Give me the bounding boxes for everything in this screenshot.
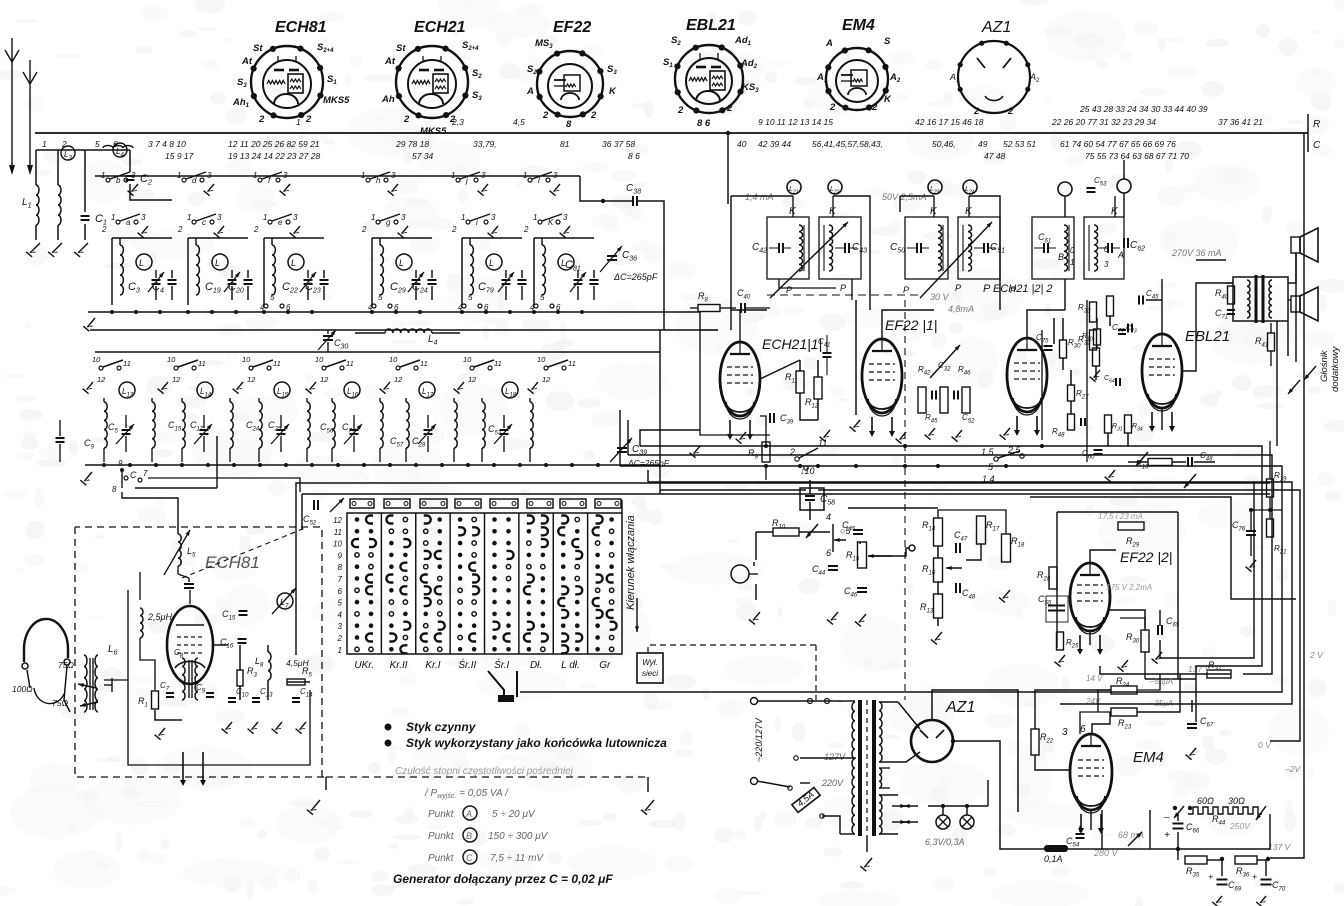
svg-text:P: P [955, 283, 961, 293]
svg-text:150 ÷ 300 μV: 150 ÷ 300 μV [488, 831, 549, 842]
capacitor above tube [184, 583, 194, 585]
ground antenna section [30, 243, 40, 253]
svg-text:4: 4 [368, 303, 373, 312]
svg-text:10: 10 [315, 355, 324, 364]
band switch matrix frame [302, 493, 1270, 495]
ground row2 left [84, 472, 92, 481]
svg-text:EM4: EM4 [842, 17, 875, 34]
svg-text:2: 2 [258, 114, 265, 125]
svg-text:i: i [476, 218, 478, 227]
svg-text:+: + [1208, 872, 1213, 882]
svg-text:3: 3 [553, 171, 558, 180]
svg-text:2: 2 [1007, 106, 1014, 117]
svg-text:3: 3 [491, 213, 496, 222]
svg-text:EBL21: EBL21 [1185, 328, 1230, 345]
oscillator triode ECH81 envelope [167, 606, 213, 684]
coil L5 variable [178, 534, 181, 566]
wire heater rail [987, 780, 989, 806]
svg-text:8 6: 8 6 [628, 151, 640, 161]
capacitor C47 [955, 543, 957, 553]
svg-text:Wył.: Wył. [642, 658, 658, 667]
svg-text:40: 40 [737, 139, 747, 149]
band switch contacts j/i [456, 178, 460, 182]
svg-text:42 39 44: 42 39 44 [758, 139, 791, 149]
svg-text:Punkt: Punkt [428, 831, 455, 842]
svg-text:l: l [538, 176, 540, 185]
svg-text:10: 10 [242, 355, 251, 364]
capacitor C76 [1246, 530, 1256, 532]
variable capacitor C36 [607, 255, 617, 257]
svg-text:3: 3 [283, 171, 288, 180]
svg-text:d: d [192, 176, 197, 185]
tone stack R14 R17 R18 [934, 518, 943, 546]
svg-text:St: St [396, 43, 406, 54]
node R terminal [1307, 114, 1309, 152]
svg-text:At: At [384, 56, 396, 67]
svg-text:↓10: ↓10 [800, 466, 815, 476]
svg-text:11: 11 [420, 359, 428, 368]
capacitor C30 [323, 335, 333, 337]
grounds inside oscillator [159, 728, 165, 736]
resistor R28 [1049, 567, 1057, 589]
svg-text:1,4 mA: 1,4 mA [745, 192, 774, 202]
svg-text:Punkt: Punkt [428, 809, 455, 820]
transformer secondary HT winding [879, 702, 882, 762]
svg-text:1: 1 [187, 213, 191, 222]
band switch contacts b/a [106, 178, 110, 182]
resistor R25 [1057, 632, 1064, 650]
capacitor C38 [632, 196, 634, 206]
capacitor C9 C10 C11 C14 row [206, 692, 214, 694]
svg-text:g: g [386, 218, 391, 227]
svg-text:1: 1 [101, 171, 105, 180]
svg-text:2: 2 [361, 225, 367, 234]
heater arrows below oscillator tube [182, 752, 184, 780]
svg-text:0 V: 0 V [1258, 740, 1272, 750]
capacitor C48 mid [955, 583, 957, 593]
svg-text:C: C [466, 853, 473, 863]
capacitor C8 left [56, 437, 65, 439]
svg-text:h: h [376, 176, 381, 185]
svg-text:3: 3 [481, 171, 486, 180]
svg-text:0: 0 [1070, 246, 1075, 255]
svg-text:ΔC=265pF: ΔC=265pF [613, 272, 658, 282]
RF tuned circuit block 4 [371, 238, 373, 305]
svg-text:P: P [840, 283, 846, 293]
oscillator tuned circuit 6 [482, 402, 485, 448]
capacitor C44 [828, 565, 838, 567]
capacitor C7 [166, 692, 174, 694]
svg-text:10: 10 [92, 355, 101, 364]
svg-text:e: e [278, 218, 283, 227]
loudspeaker 1 [1291, 237, 1300, 253]
svg-text:220V: 220V [821, 778, 844, 788]
svg-text:5: 5 [378, 293, 383, 302]
IF transformer II primary box [905, 217, 948, 279]
svg-text:12: 12 [97, 375, 106, 384]
wire long rails middle [764, 464, 768, 468]
oscillator tuned circuit 3 [259, 402, 262, 448]
arrow down-left antenna feed [9, 165, 15, 175]
svg-text:3: 3 [293, 213, 298, 222]
svg-text:5: 5 [95, 139, 100, 149]
resistor R16 mid [934, 558, 943, 582]
resistor R10 [773, 528, 799, 536]
svg-text:10: 10 [537, 355, 546, 364]
svg-text:2: 2 [451, 225, 457, 234]
selector pointer symbol [488, 671, 517, 697]
tube socket ECH81 [232, 19, 350, 125]
svg-text:1: 1 [451, 171, 455, 180]
svg-text:7: 7 [338, 575, 343, 584]
svg-text:1: 1 [361, 171, 365, 180]
variable capacitor C39 right [617, 447, 627, 449]
svg-text:22 26 20 77 31 32 23 29: 22 26 20 77 31 32 23 29 34 [1051, 117, 1156, 127]
svg-text:10: 10 [333, 540, 342, 549]
resistor R8 [698, 305, 720, 312]
pilot lamps [936, 815, 950, 829]
resistor R3 [237, 670, 243, 686]
svg-text:4,8mA: 4,8mA [948, 304, 974, 314]
svg-text:11: 11 [273, 359, 281, 368]
svg-text:K: K [548, 218, 554, 227]
svg-text:6,3V/0,3A: 6,3V/0,3A [925, 837, 965, 847]
heater arrows [892, 805, 906, 807]
wire 270V rail [1123, 160, 1125, 179]
svg-text:5 ÷ 20 μV: 5 ÷ 20 μV [492, 809, 536, 820]
resistor R12 [814, 377, 822, 399]
wire row2 to matrix [148, 478, 300, 492]
svg-text:9: 9 [118, 459, 123, 468]
wire RF row2 top rail [95, 351, 660, 353]
svg-text:1: 1 [371, 213, 375, 222]
svg-text:3: 3 [1104, 260, 1109, 269]
svg-text:EF22 |1|: EF22 |1| [885, 317, 937, 333]
svg-text:2: 2 [101, 225, 107, 234]
wire AZ1 cathode B+ [932, 690, 1018, 812]
svg-text:2: 2 [590, 110, 597, 121]
svg-text:5: 5 [540, 293, 545, 302]
svg-text:3: 3 [338, 622, 343, 631]
svg-text:50,46,: 50,46, [932, 139, 956, 149]
wire dashed mains switch link [648, 645, 816, 653]
capacitor C39a [769, 413, 771, 423]
wire AZ1 plates [898, 702, 920, 729]
potentiometer R15 [858, 542, 867, 568]
svg-text:0: 0 [1104, 245, 1109, 254]
resistor R1 [152, 691, 159, 709]
capacitor C2 [126, 175, 135, 177]
coil 2.5uH [140, 608, 143, 638]
tube ECH21(2) [1007, 338, 1047, 412]
svg-text:K: K [609, 86, 617, 97]
svg-text:L: L [291, 258, 296, 268]
svg-text:75 55 73 64 63 68 67: 75 55 73 64 63 68 67 71 70 [1085, 151, 1189, 161]
screen network under EF22(1) [918, 387, 926, 413]
svg-text:11: 11 [198, 359, 206, 368]
svg-text:14 V: 14 V [1086, 674, 1103, 683]
svg-text:8: 8 [338, 563, 343, 572]
svg-text:Ah: Ah [381, 94, 395, 105]
svg-text:L: L [399, 258, 404, 268]
svg-text:33,79,: 33,79, [473, 139, 497, 149]
svg-text:Punkt: Punkt [428, 853, 455, 864]
wire mid rail y330 [90, 329, 660, 331]
svg-text:3: 3 [401, 213, 406, 222]
coil L1 [36, 185, 39, 225]
IF transformer III secondary box [1084, 217, 1124, 279]
ground oscillator [311, 800, 320, 811]
band switch contacts f/e [258, 178, 262, 182]
svg-text:1: 1 [461, 213, 465, 222]
capacitor C55 dashed box [1048, 605, 1058, 607]
svg-text:1: 1 [523, 171, 527, 180]
svg-text:11: 11 [568, 359, 576, 368]
svg-text:61 74 60 54 77 67 65 66: 61 74 60 54 77 67 65 66 69 76 [1060, 139, 1176, 149]
svg-text:MKS5: MKS5 [420, 126, 447, 137]
phono input jack [731, 565, 749, 583]
svg-text:36 37 58: 36 37 58 [602, 139, 635, 149]
resistor R41 [1268, 333, 1275, 351]
resistor R24 [1111, 686, 1137, 694]
svg-text:2,5μH: 2,5μH [147, 612, 172, 622]
RF tuned circuit block 2 [187, 238, 189, 305]
wire RF row2 bottom rail [85, 464, 660, 466]
RC network R16 C48 [1148, 459, 1172, 466]
wire RF top rail [95, 175, 580, 177]
svg-text:P ECH21 |2| 2: P ECH21 |2| 2 [983, 283, 1053, 295]
wire RF to tubes [620, 312, 700, 330]
svg-text:2: 2 [726, 103, 733, 114]
svg-text:Kr.II: Kr.II [390, 660, 408, 671]
svg-text:a: a [126, 218, 131, 227]
wire tone network [938, 510, 1006, 534]
oscillator padder coil L4 [385, 329, 432, 333]
IF transformer III primary box [1032, 217, 1074, 279]
RF tuned circuit block 5 [461, 238, 463, 305]
oscillator tuned circuit 1 [104, 402, 107, 448]
capacitor C67 [1187, 723, 1197, 725]
wire bus to IFT1 [727, 133, 729, 204]
svg-text:3: 3 [207, 171, 212, 180]
tube socket EF22 [526, 19, 617, 130]
svg-text:2: 2 [177, 225, 183, 234]
wire EM4 connections [1035, 755, 1070, 770]
RF tuned circuit block 6 [533, 238, 535, 305]
ground EBL21 area [1004, 428, 1010, 436]
resistor R19 [1267, 479, 1274, 497]
svg-text:6: 6 [826, 548, 831, 558]
wire rail left joins [640, 430, 700, 446]
wire IFT2 frame [900, 195, 934, 197]
svg-text:B: B [1058, 252, 1064, 262]
svg-text:L: L [489, 258, 494, 268]
svg-text:A: A [465, 809, 472, 819]
resistor R9 [762, 442, 770, 462]
svg-text:6: 6 [556, 303, 561, 312]
svg-text:~220/127V: ~220/127V [754, 717, 764, 762]
legend bullet 2 [385, 740, 392, 747]
components around EBL21 [1138, 296, 1140, 305]
svg-text:6: 6 [1080, 724, 1086, 735]
top-cap circles L21 L22 [787, 180, 801, 194]
capacitor C40 [740, 303, 742, 313]
capacitor C65 [1157, 625, 1159, 635]
svg-text:12 11 20 25 26 82 59 21: 12 11 20 25 26 82 59 21 [228, 139, 320, 149]
fuse 4.5A [792, 787, 820, 812]
svg-text:3: 3 [391, 171, 396, 180]
svg-text:L: L [215, 258, 220, 268]
svg-text:49: 49 [978, 139, 988, 149]
svg-text:ECH21|1|: ECH21|1| [762, 336, 822, 352]
wire right side vertical rails [1276, 321, 1278, 446]
svg-text:2: 2 [829, 102, 836, 113]
coil L7 core circle [277, 593, 293, 609]
svg-text:52 53 51: 52 53 51 [1003, 139, 1036, 149]
svg-text:1: 1 [111, 213, 115, 222]
IF transformer I secondary box [819, 217, 861, 279]
svg-text:C: C [130, 470, 137, 480]
svg-text:4: 4 [260, 303, 265, 312]
svg-text:Generator dołączany przez C =: Generator dołączany przez C = 0,02 μF [393, 872, 613, 886]
svg-text:1: 1 [296, 117, 301, 127]
svg-text:Głośnik: Głośnik [1319, 349, 1330, 382]
svg-text:AZ1: AZ1 [945, 699, 975, 716]
tube socket AZ1 [949, 19, 1040, 117]
svg-text:5: 5 [270, 293, 275, 302]
resistor R40 [1228, 286, 1235, 304]
capacitor C41 [823, 352, 832, 354]
tube socket EM4 [816, 17, 901, 113]
svg-text:2: 2 [677, 105, 684, 116]
svg-text:–2V: –2V [1284, 764, 1301, 774]
svg-text:12: 12 [320, 375, 329, 384]
transformer primary winding [852, 702, 855, 834]
band switch contacts d/c [182, 178, 186, 182]
svg-text:30Ω: 30Ω [1228, 796, 1245, 806]
svg-text:2: 2 [305, 114, 312, 125]
tube EM4 indicator [1070, 734, 1112, 810]
capacitor C46 [857, 587, 867, 589]
svg-text:A: A [1117, 250, 1124, 260]
resistor R23 [1111, 708, 1137, 716]
svg-text:8: 8 [112, 485, 117, 494]
resistor R29 [1118, 522, 1144, 530]
svg-text:11: 11 [334, 528, 342, 537]
resistor R5 [287, 679, 305, 685]
resistor R13 [934, 594, 943, 618]
wire RF row1 bottom rail [88, 311, 620, 313]
output transformer [1233, 277, 1288, 321]
svg-text:15 9 17: 15 9 17 [165, 151, 194, 161]
svg-text:R: R [1313, 119, 1320, 130]
svg-text:8 6: 8 6 [697, 118, 711, 129]
wire EF22(2) [1090, 550, 1116, 563]
electrolytic C66 [1173, 823, 1184, 825]
tube EF22(2) [1070, 563, 1110, 631]
capacitor C58 mid [805, 495, 815, 497]
svg-text:Styk czynny: Styk czynny [406, 720, 477, 734]
svg-text:6: 6 [338, 587, 343, 596]
svg-text:b: b [116, 176, 121, 185]
svg-text:At: At [241, 56, 253, 67]
svg-text:c: c [202, 218, 206, 227]
svg-text:EBL21: EBL21 [686, 17, 736, 34]
RF tuned circuit block 1 [111, 238, 113, 305]
svg-text:5: 5 [468, 293, 473, 302]
resistor R21 [1267, 519, 1274, 537]
svg-text:11: 11 [346, 359, 354, 368]
ground ECH21(1) [740, 432, 746, 440]
svg-text:1: 1 [253, 171, 257, 180]
capacitor C1 [81, 215, 90, 217]
svg-text:2: 2 [871, 102, 878, 113]
svg-text:175 V 2,2mA: 175 V 2,2mA [1106, 583, 1152, 592]
variable arrow IFT1 [770, 222, 848, 298]
svg-text:2: 2 [542, 110, 549, 121]
svg-text:MKS5: MKS5 [323, 95, 350, 106]
matrix main grid [347, 513, 622, 654]
svg-text:3: 3 [1062, 727, 1068, 738]
antenna plug symbol [24, 619, 68, 658]
svg-text:0,1A: 0,1A [1044, 854, 1063, 864]
svg-text:Kierunek włączania: Kierunek włączania [625, 515, 637, 610]
band switch contacts h/g [366, 178, 370, 182]
svg-text:3: 3 [563, 213, 568, 222]
variable arrow IFT2 [920, 222, 992, 298]
svg-text:1: 1 [263, 213, 267, 222]
capacitor C43 [853, 529, 863, 531]
tube ECH21(1) [720, 342, 760, 416]
svg-text:S: S [884, 36, 891, 47]
svg-text:L dł.: L dł. [561, 660, 580, 671]
oscillator tuned circuit 4 [332, 402, 335, 448]
svg-text:EM4: EM4 [1133, 749, 1164, 766]
svg-text:K: K [884, 94, 892, 105]
svg-text:42 16 17 15 46 18: 42 16 17 15 46 18 [915, 117, 984, 127]
dashed AVC vertical [904, 300, 906, 700]
svg-text:ECH21: ECH21 [414, 19, 466, 36]
components around ECH21(2) [1044, 345, 1053, 347]
svg-text:2 V: 2 V [1309, 650, 1324, 660]
svg-text:1: 1 [177, 171, 181, 180]
svg-text:B: B [466, 831, 472, 841]
svg-text:AZ1: AZ1 [981, 19, 1011, 36]
svg-text:137 V: 137 V [1268, 842, 1292, 852]
ground EF22(2) [1059, 655, 1065, 663]
resistor R22 [1031, 729, 1039, 755]
ground AF1 [753, 612, 760, 620]
RF tuned circuit block 3 [263, 238, 265, 305]
top-cap circles L23 L24 [928, 180, 942, 194]
dashed AGC line [767, 294, 919, 296]
svg-text:2: 2 [337, 634, 343, 643]
svg-text:1: 1 [42, 139, 47, 149]
coil L2 [58, 185, 61, 225]
svg-text:50V 2,5mA: 50V 2,5mA [882, 192, 927, 202]
wire mains [757, 700, 840, 702]
svg-text:2: 2 [973, 106, 980, 117]
svg-text:UKr.: UKr. [354, 660, 374, 671]
arrow to extra speaker [1288, 380, 1300, 394]
svg-text:Dł.: Dł. [530, 660, 542, 671]
svg-text:12: 12 [468, 375, 477, 384]
svg-text:–55μA: –55μA [1149, 677, 1173, 686]
capacitor C54 [1076, 833, 1085, 835]
wire speakers to transformer [1288, 253, 1296, 283]
svg-text:17,5 i 23 mA: 17,5 i 23 mA [1098, 512, 1143, 521]
tube EF22(1) [862, 339, 902, 413]
